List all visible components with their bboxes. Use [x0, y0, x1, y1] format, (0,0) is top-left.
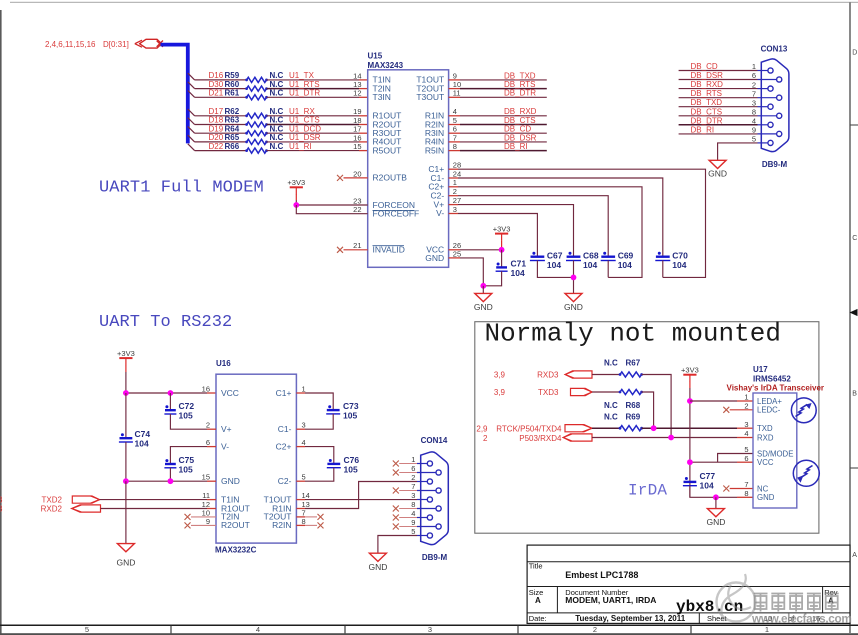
capacitor C70 [655, 252, 670, 261]
connector CON14 pins [427, 461, 432, 466]
svg-text:B: B [852, 391, 857, 398]
svg-text:5: 5 [411, 527, 415, 536]
svg-text:+3V3: +3V3 [681, 366, 699, 375]
svg-text:R5OUT: R5OUT [373, 145, 402, 155]
svg-text:8: 8 [302, 517, 306, 526]
svg-text:12: 12 [353, 89, 361, 98]
wire net DB_RXD to CON13 [679, 88, 758, 90]
svg-text:www.elecfans.com: www.elecfans.com [751, 612, 852, 626]
ground under U15 pin25 [482, 286, 484, 294]
svg-text:R69: R69 [626, 412, 641, 421]
no-connect X CON14 row 4 [393, 515, 399, 521]
svg-text:3: 3 [411, 491, 415, 500]
svg-text:N.C: N.C [270, 142, 284, 151]
wire net DB_CD to CON13 [679, 70, 758, 72]
svg-text:V-: V- [436, 208, 444, 218]
svg-text:2: 2 [483, 434, 488, 443]
svg-text:+3V3: +3V3 [287, 178, 305, 187]
svg-text:DB_RI: DB_RI [691, 125, 715, 134]
svg-text:GND: GND [757, 493, 775, 502]
wire net DB_RI from U15 pin [449, 150, 460, 152]
bus D[0:31] [161, 45, 188, 144]
svg-text:C76: C76 [344, 455, 360, 465]
svg-text:Title: Title [529, 561, 543, 570]
wire C74 to gnd row [125, 442, 127, 481]
svg-text:DB_RXD: DB_RXD [691, 80, 724, 89]
wire U1_RTS to U15 pin 13 [267, 88, 360, 90]
ground U17 [715, 497, 717, 508]
CON13 pin stub 5 [758, 142, 768, 144]
wire SD/MODE pin5 tie to VCC [718, 454, 753, 463]
svg-text:1: 1 [744, 393, 748, 402]
svg-text:D19: D19 [209, 124, 224, 133]
svg-text:NC: NC [757, 484, 769, 493]
resistor R68 [619, 389, 643, 394]
junction TXD4/R68 [651, 425, 657, 431]
svg-text:16: 16 [353, 133, 361, 142]
ground under C67/C68 [565, 293, 582, 301]
svg-text:U1_RX: U1_RX [289, 107, 315, 116]
svg-text:DB_RXD: DB_RXD [504, 107, 537, 116]
svg-text:+3V3: +3V3 [493, 224, 511, 233]
junction VCC/C77 [687, 459, 693, 465]
svg-text:104: 104 [700, 480, 714, 490]
svg-text:R64: R64 [225, 124, 240, 133]
CON13 pin stub 4 [758, 124, 768, 126]
wire +3V3 down to C77 [689, 382, 691, 389]
svg-text:5: 5 [302, 473, 306, 482]
svg-text:D21: D21 [209, 89, 224, 98]
svg-text:7: 7 [744, 480, 748, 489]
watermark logo swirl [717, 574, 756, 622]
svg-text:LEDA+: LEDA+ [757, 397, 782, 406]
CON14 pin stub 7 [417, 490, 436, 492]
svg-text:3: 3 [428, 625, 432, 634]
svg-text:MODEM, UART1, IRDA: MODEM, UART1, IRDA [565, 595, 656, 605]
svg-text:4: 4 [256, 625, 260, 634]
svg-text:105: 105 [343, 411, 357, 421]
resistor R67 [619, 372, 643, 377]
wire T1OUT to CON14 pin3 [296, 499, 305, 501]
connector CON14 DB9 body [421, 452, 449, 545]
svg-text:105: 105 [344, 464, 358, 474]
bus entry + wire net U1_RX [188, 109, 195, 116]
wire RXD3 to R67 [592, 374, 620, 376]
svg-text:U1_TX: U1_TX [289, 71, 315, 80]
svg-text:18: 18 [353, 116, 361, 125]
no-connect X on U15 pin 21 INVALID [337, 247, 343, 253]
wire net DB_RTS from U15 pin [449, 88, 460, 90]
bus terminator symbol [140, 39, 162, 48]
svg-text:C2-: C2- [278, 476, 292, 486]
IC U16 MAX3232C body [216, 374, 296, 543]
svg-text:6: 6 [744, 454, 748, 463]
no-connect X on U17 LEDC- [723, 407, 729, 413]
wire RXD4 to U17 RXD [592, 437, 737, 439]
svg-text:9: 9 [411, 518, 415, 527]
svg-text:GND: GND [116, 558, 135, 568]
connector CON13 DB9 body [761, 59, 789, 152]
svg-text:R62: R62 [225, 107, 240, 116]
svg-text:T3IN: T3IN [373, 92, 391, 102]
svg-text:U16: U16 [216, 359, 231, 368]
svg-text:4: 4 [744, 429, 748, 438]
resistor R61 [245, 95, 268, 100]
svg-text:3: 3 [302, 421, 306, 430]
junction at GND/C71 [480, 283, 486, 289]
no-connect X CON14 row 1 [393, 461, 399, 467]
wire U1_TX to U15 pin 14 [267, 79, 360, 81]
title block frame [527, 545, 850, 623]
svg-text:C75: C75 [179, 455, 195, 465]
svg-text:104: 104 [583, 260, 597, 270]
svg-text:DB_CTS: DB_CTS [691, 107, 723, 116]
ground CON14 [369, 553, 386, 561]
wire TXD2 to T1IN [100, 499, 208, 501]
svg-text:IrDA: IrDA [628, 482, 667, 500]
svg-text:22: 22 [353, 205, 361, 214]
svg-text:D30: D30 [209, 80, 224, 89]
wire net DB_DTR to CON13 [679, 124, 758, 126]
ground CON13 [709, 160, 726, 168]
svg-text:TXD2: TXD2 [42, 496, 63, 505]
CON14 pin stub 8 [417, 508, 436, 510]
svg-text:8: 8 [453, 142, 457, 151]
CON13 pin stub 3 [758, 106, 768, 108]
svg-text:C1+: C1+ [276, 388, 292, 398]
bus entry + wire net U1_RI [188, 144, 195, 151]
resistor R60 [245, 86, 268, 91]
CON13 pin stub 6 [758, 79, 777, 81]
svg-text:N.C: N.C [270, 89, 284, 98]
capacitor C67 [530, 252, 545, 261]
svg-text:A: A [535, 596, 541, 605]
svg-text:13: 13 [353, 80, 361, 89]
svg-text:DB_DSR: DB_DSR [504, 133, 537, 142]
port TXD2 [72, 496, 99, 503]
svg-text:R65: R65 [225, 133, 240, 142]
wire U1_RI to U15 pin 15 [267, 150, 360, 152]
svg-text:MAX3243: MAX3243 [368, 61, 404, 70]
svg-text:9: 9 [453, 71, 457, 80]
no-connect X on U16 T2IN [185, 514, 191, 520]
svg-text:DB9-M: DB9-M [762, 160, 788, 169]
wire U1_DSR to U15 pin 16 [267, 141, 360, 143]
svg-text:8: 8 [752, 108, 756, 117]
wire C1+ pin1 to C73 [296, 392, 305, 394]
wire V- pin6 to C75 [207, 446, 216, 448]
svg-text:3,9: 3,9 [494, 388, 506, 397]
no-connect X on U16 R2IN [296, 524, 305, 526]
svg-text:RXD2: RXD2 [41, 505, 63, 514]
svg-text:U1_RTS: U1_RTS [289, 80, 320, 89]
svg-text:105: 105 [179, 465, 193, 475]
CON14 pin stub 3 [417, 499, 427, 501]
svg-text:6: 6 [411, 464, 415, 473]
port P503/RXD4 [563, 434, 592, 441]
svg-text:DB_CD: DB_CD [504, 125, 531, 134]
wire U1_RX to U15 pin 19 [267, 115, 360, 117]
svg-text:D[0:31]: D[0:31] [103, 40, 129, 49]
svg-text:1: 1 [411, 455, 415, 464]
svg-text:U1_RI: U1_RI [289, 142, 312, 151]
svg-text:N.C: N.C [604, 412, 618, 421]
CON14 pin stub 5 [417, 535, 427, 537]
IC U15 MAX3243 body [368, 70, 449, 267]
no-connect X CON14 row 7 [393, 488, 399, 494]
svg-text:R63: R63 [225, 116, 240, 125]
svg-text:DB_TXD: DB_TXD [691, 98, 723, 107]
svg-text:D20: D20 [209, 133, 224, 142]
svg-text:25: 25 [453, 249, 461, 258]
annotation box normally-not-mounted [475, 322, 819, 534]
wire U1_DTR to U15 pin 12 [267, 96, 360, 98]
svg-text:N.C: N.C [604, 358, 618, 367]
svg-text:6: 6 [752, 71, 756, 80]
svg-text:8: 8 [744, 489, 748, 498]
svg-text:2: 2 [752, 80, 756, 89]
svg-text:1: 1 [752, 62, 756, 71]
svg-text:DB_RI: DB_RI [504, 142, 528, 151]
svg-text:T3OUT: T3OUT [416, 92, 444, 102]
svg-text:C77: C77 [700, 471, 716, 481]
svg-text:20: 20 [353, 169, 361, 178]
wire U1_DCD to U15 pin 17 [267, 132, 360, 134]
svg-text:3: 3 [744, 420, 748, 429]
svg-text:1: 1 [765, 625, 769, 634]
svg-text:2: 2 [744, 401, 748, 410]
svg-text:N.C: N.C [270, 71, 284, 80]
svg-text:5: 5 [752, 135, 756, 144]
svg-text:Normaly not mounted: Normaly not mounted [485, 319, 781, 349]
resistor R62 [245, 113, 268, 118]
wire C73 to C1- pin3 [305, 414, 333, 429]
svg-text:R2OUT: R2OUT [221, 520, 250, 530]
svg-text:C67: C67 [547, 250, 563, 260]
svg-text:R5IN: R5IN [425, 145, 444, 155]
svg-text:V+: V+ [221, 424, 232, 434]
capacitor C75 [164, 459, 176, 468]
wire RXD2 to R1OUT [101, 508, 208, 510]
svg-text:16: 16 [202, 384, 210, 393]
svg-text:R60: R60 [225, 80, 240, 89]
capacitor C73 [326, 405, 340, 414]
svg-text:19: 19 [353, 107, 361, 116]
wire C67 bottom to C68 bottom [537, 261, 573, 278]
svg-text:N.C: N.C [270, 80, 284, 89]
svg-text:7: 7 [411, 482, 415, 491]
svg-text:4: 4 [411, 509, 415, 518]
svg-text:GND: GND [706, 517, 725, 527]
wire U17 GND pin8 [716, 496, 737, 498]
no-connect X on U16 T2OUT [296, 516, 305, 518]
svg-text:GND: GND [221, 476, 240, 486]
wire LEDA+ pin1 [690, 400, 737, 402]
bus entry + wire net U1_CTS [188, 118, 195, 125]
svg-text:6: 6 [206, 438, 210, 447]
wire CON14 pin5 to ground [378, 536, 417, 554]
junction at VCC/C71 [499, 247, 505, 253]
svg-text:DB_CD: DB_CD [691, 62, 718, 71]
resistor R66 [245, 148, 268, 153]
svg-text:UART To RS232: UART To RS232 [99, 313, 232, 332]
capacitor C72 [169, 393, 171, 410]
svg-text:3: 3 [453, 205, 457, 214]
svg-text:C: C [852, 235, 857, 242]
svg-text:C2+: C2+ [276, 441, 292, 451]
svg-text:2,4,6,11,15,16: 2,4,6,11,15,16 [45, 40, 96, 49]
svg-text:11: 11 [202, 491, 210, 500]
IrDA photodiode symbol [793, 460, 819, 486]
junction C75/GND [168, 478, 174, 484]
CON13 pin stub 1 [758, 70, 768, 72]
svg-text:5: 5 [85, 625, 89, 634]
svg-text:TXD: TXD [757, 424, 773, 433]
junction C72 top [168, 390, 174, 396]
port RXD3 [565, 371, 592, 378]
svg-text:CON13: CON13 [761, 45, 788, 54]
power +3V3 at U17 [681, 366, 699, 382]
svg-text:1: 1 [302, 384, 306, 393]
resistor R59 [245, 77, 268, 82]
svg-text:14: 14 [302, 491, 310, 500]
svg-text:R66: R66 [225, 142, 240, 151]
no-connect X on U17 NC [723, 486, 729, 492]
svg-text:D22: D22 [209, 142, 224, 151]
svg-text:15: 15 [202, 473, 210, 482]
wire net DB_CTS to CON13 [679, 115, 758, 117]
wire C77 to GND row [690, 486, 716, 498]
CON14 pin stub 4 [417, 517, 427, 519]
svg-text:5: 5 [744, 445, 748, 454]
svg-text:3,9: 3,9 [494, 370, 506, 379]
wire C75 to gnd row [169, 468, 171, 481]
no-connect X on U16 R2OUT [185, 522, 191, 528]
svg-text:2: 2 [453, 187, 457, 196]
svg-text:C69: C69 [618, 250, 634, 260]
svg-text:U17: U17 [753, 365, 768, 374]
resistor R63 [245, 122, 268, 127]
bus entry + wire net U1_TX [188, 73, 195, 80]
svg-text:GND: GND [425, 253, 444, 263]
svg-text:DB_DTR: DB_DTR [504, 89, 536, 98]
svg-text:104: 104 [135, 439, 149, 449]
svg-text:2: 2 [593, 625, 597, 634]
CON13 pin stub 2 [758, 88, 768, 90]
capacitor C69 [601, 252, 616, 261]
capacitor C76 [327, 459, 341, 468]
power +3V3 at U15 VCC [493, 224, 511, 240]
wire +3V3 to FORCEON pin 23 [295, 194, 297, 200]
svg-text:104: 104 [672, 260, 686, 270]
junction C74/GND [123, 478, 129, 484]
wire net DB_CD from U15 pin [449, 132, 460, 134]
svg-text:RXD3: RXD3 [537, 370, 559, 379]
svg-text:7: 7 [453, 133, 457, 142]
svg-text:LEDC-: LEDC- [757, 406, 781, 415]
svg-text:4: 4 [302, 438, 306, 447]
svg-text:V-: V- [221, 441, 229, 451]
wire U16 GND pin15 [207, 480, 216, 482]
wire net DB_DSR to CON13 [679, 79, 758, 81]
svg-text:D16: D16 [209, 71, 224, 80]
svg-text:DB_TXD: DB_TXD [504, 71, 536, 80]
power +3V3 at U15 FORCEON [287, 178, 305, 194]
svg-text:ybx8.cn: ybx8.cn [676, 598, 743, 616]
svg-text:7: 7 [752, 89, 756, 98]
wire U1_CTS to U15 pin 18 [267, 124, 360, 126]
wire to U16 ground [125, 481, 127, 543]
svg-text:SD/MODE: SD/MODE [757, 449, 793, 458]
svg-text:10: 10 [453, 80, 461, 89]
svg-text:A: A [852, 552, 857, 559]
svg-text:2: 2 [206, 421, 210, 430]
port RXD2 [72, 505, 101, 512]
svg-text:28: 28 [453, 161, 461, 170]
svg-text:U1_DSR: U1_DSR [289, 133, 321, 142]
svg-text:2: 2 [411, 473, 415, 482]
svg-text:N.C: N.C [270, 124, 284, 133]
svg-text:R2IN: R2IN [272, 520, 291, 530]
capacitor C74 [125, 393, 127, 438]
svg-text:C1-: C1- [278, 424, 292, 434]
svg-text:MAX3232C: MAX3232C [215, 546, 257, 555]
svg-text:21: 21 [353, 241, 361, 250]
svg-text:104: 104 [618, 260, 632, 270]
svg-text:9: 9 [752, 126, 756, 135]
svg-text:Date:: Date: [529, 614, 547, 623]
junction at C68 bottom [571, 275, 577, 281]
svg-text:R59: R59 [225, 71, 240, 80]
CON13 pin stub 9 [758, 133, 777, 135]
no-connect X CON14 row 6 [393, 470, 399, 476]
IrDA LED symbol [791, 398, 816, 423]
wire R1IN to CON14 pin2 [296, 508, 305, 510]
wire TXD4 to R69 [592, 427, 620, 429]
svg-text:27: 27 [453, 196, 461, 205]
svg-text:23: 23 [353, 196, 361, 205]
port TXD3 [571, 388, 593, 395]
svg-text:RTCK/P504/TXD4: RTCK/P504/TXD4 [496, 424, 562, 433]
svg-text:D: D [852, 50, 857, 57]
svg-text:105: 105 [179, 411, 193, 421]
wire net DB_RTS to CON13 [679, 97, 758, 99]
svg-text:DB_DSR: DB_DSR [691, 71, 724, 80]
wire net DB_RI to CON13 [679, 133, 758, 135]
svg-text:D18: D18 [209, 116, 224, 125]
svg-text:N.C: N.C [604, 401, 618, 410]
CON13 pin stub 7 [758, 97, 777, 99]
svg-text:DB_DTR: DB_DTR [691, 116, 723, 125]
svg-text:U1_DCD: U1_DCD [289, 124, 321, 133]
svg-text:IRMS6452: IRMS6452 [753, 374, 791, 383]
watermark chinese glyphs [754, 593, 839, 612]
svg-text:DB_RTS: DB_RTS [691, 89, 722, 98]
ground U16 [117, 544, 134, 552]
bus entry + wire net U1_DTR [188, 91, 195, 98]
svg-text:P503/RXD4: P503/RXD4 [519, 434, 562, 443]
IC U17 IRMS6452 body [753, 393, 797, 508]
CON14 pin stub 6 [417, 472, 436, 474]
svg-text:Vishay's IrDA Transceiver: Vishay's IrDA Transceiver [727, 384, 825, 393]
svg-text:U1_DTR: U1_DTR [289, 89, 320, 98]
svg-text:U15: U15 [368, 52, 383, 61]
svg-text:N.C: N.C [270, 133, 284, 142]
capacitor C71 [501, 250, 503, 268]
svg-text:C71: C71 [511, 258, 527, 268]
svg-text:C72: C72 [179, 401, 195, 411]
svg-text:C68: C68 [583, 250, 599, 260]
